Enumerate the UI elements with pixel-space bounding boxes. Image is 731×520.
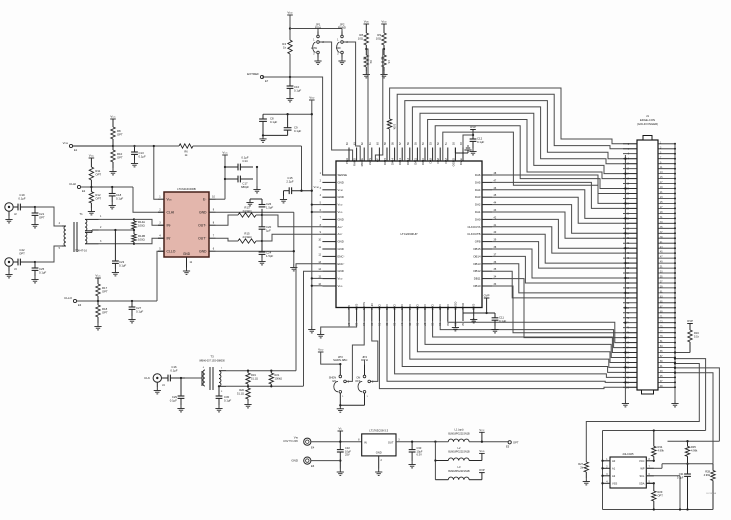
wire DB bus 1: [387, 321, 637, 382]
svg-text:VC: VC: [338, 427, 342, 431]
wire ENC+: [296, 264, 322, 371]
ground: [112, 269, 119, 276]
wire CLLO to U1: [157, 251, 164, 301]
capacitor C13: [131, 145, 146, 160]
ground: [409, 461, 416, 468]
svg-text:SHDN ABC: SHDN ABC: [333, 358, 347, 362]
svg-text:GND: GND: [338, 269, 344, 273]
wire DA2: [492, 205, 637, 234]
wire DA5: [492, 182, 637, 208]
svg-text:A0: A0: [612, 459, 616, 463]
wire DA15 bus: [390, 88, 637, 161]
svg-text:MODE: MODE: [360, 158, 364, 167]
svg-text:VCM: VCM: [63, 141, 69, 145]
node VCM label: [314, 185, 319, 189]
svg-text:10: 10: [318, 239, 321, 242]
svg-text:VCC: VCC: [222, 151, 228, 155]
ground: [337, 469, 344, 476]
connector J2 SMA: [5, 203, 17, 216]
svg-text:10Ω: 10Ω: [358, 37, 363, 41]
wire bottom rail: [603, 508, 714, 510]
wire C8 C9 gnd rail: [262, 134, 288, 136]
svg-text:GND: GND: [376, 451, 382, 455]
wire rail3: [662, 463, 713, 465]
svg-text:BLM18PG221SN1B: BLM18PG221SN1B: [448, 470, 470, 473]
svg-text:7: 7: [213, 235, 215, 238]
svg-text:DA4: DA4: [475, 188, 481, 192]
svg-text:62: 62: [361, 142, 364, 145]
capacitor C18: [109, 186, 124, 202]
svg-text:6.3V: 6.3V: [417, 453, 423, 457]
svg-text:J3: J3: [14, 267, 17, 271]
capacitor C16: [162, 365, 186, 381]
jumper JP1 PGA: [311, 23, 324, 58]
capacitor C15: [284, 176, 313, 196]
wire VCM rail: [113, 145, 179, 147]
svg-text:L1 (opt): L1 (opt): [455, 428, 464, 432]
resistor R21: [269, 370, 282, 388]
svg-text:PGA: PGA: [345, 158, 349, 164]
terminal E3 CLLO: [64, 296, 157, 307]
svg-text:E6: E6: [311, 464, 315, 468]
svg-text:OPT: OPT: [102, 311, 108, 315]
ground: [452, 324, 499, 333]
svg-text:10: 10: [212, 196, 215, 199]
svg-text:100Ω: 100Ω: [138, 224, 145, 228]
svg-text:ENC−: ENC−: [338, 262, 346, 266]
resistor R27 2k: [578, 362, 699, 478]
svg-text:DA9: DA9: [429, 158, 433, 164]
wire top rail: [603, 429, 706, 431]
wire ENC-: [304, 271, 323, 386]
ground: [31, 221, 38, 228]
svg-text:2: 2: [100, 226, 102, 229]
wire: [99, 229, 135, 231]
capacitor C19: [13, 193, 35, 210]
svg-text:1: 1: [159, 196, 161, 199]
capacitor C22: [13, 248, 35, 265]
svg-text:57: 57: [399, 142, 402, 145]
svg-text:CLHI: CLHI: [167, 210, 175, 214]
wire eeprom pins: [646, 464, 680, 510]
wire jumper gnd rail: [339, 404, 364, 406]
wire connector to eeprom 1: [674, 357, 706, 430]
power VCC out: [479, 428, 485, 442]
capacitor C33: [409, 442, 423, 461]
svg-text:OPT: OPT: [19, 252, 25, 256]
ground: [128, 316, 135, 323]
wire DB bus 9: [448, 321, 637, 343]
wire to U1 IN-: [134, 238, 164, 244]
wire DA9 bus: [435, 126, 637, 189]
power VCC: [89, 154, 95, 159]
svg-text:CLHI: CLHI: [69, 182, 76, 186]
svg-text:DB15: DB15: [474, 247, 481, 251]
ground: [177, 405, 184, 412]
svg-text:SCL: SCL: [639, 474, 645, 478]
wire U1 pin9 gnd: [216, 212, 294, 264]
wire OFB: [492, 242, 637, 269]
svg-text:ENC+: ENC+: [338, 254, 346, 258]
capacitor C26: [250, 199, 273, 216]
svg-text:DB14: DB14: [474, 254, 481, 258]
wire DB bus 8: [440, 321, 637, 348]
svg-text:3: 3: [320, 187, 322, 190]
wire: [99, 243, 135, 245]
resistor R35: [685, 441, 698, 465]
svg-text:0.1µF: 0.1µF: [294, 89, 301, 93]
svg-text:DB4: DB4: [408, 305, 412, 311]
svg-text:DB2: DB2: [393, 305, 397, 311]
connector J4 CLK SMA: [144, 374, 165, 387]
capacitor C8: [259, 113, 313, 135]
resistor R15: [216, 231, 263, 243]
svg-text:2: 2: [381, 459, 383, 462]
svg-text:OUT+: OUT+: [198, 223, 207, 227]
svg-text:24.9kΩ: 24.9kΩ: [243, 235, 252, 239]
power VDD: [287, 11, 293, 16]
svg-text:1k: 1k: [185, 153, 188, 157]
resistor R19: [246, 370, 258, 387]
svg-text:OPT: OPT: [39, 216, 45, 220]
svg-text:4: 4: [159, 235, 161, 238]
resistor R14A: [132, 218, 145, 229]
wire VDD GND bottom: [321, 321, 357, 331]
resistor R20: [237, 385, 252, 408]
wire: [289, 15, 342, 77]
resistor R9 10ohm: [376, 24, 386, 50]
svg-text:BLM18PG221SN1B: BLM18PG221SN1B: [448, 451, 470, 454]
svg-text:OE: OE: [369, 60, 372, 64]
svg-text:LVDS: LVDS: [368, 158, 372, 165]
ground: [317, 331, 324, 338]
resistor R16 OVP: [687, 319, 700, 353]
svg-text:1.5pF: 1.5pF: [266, 254, 273, 258]
svg-text:51: 51: [445, 142, 448, 145]
svg-text:11: 11: [319, 246, 322, 249]
svg-text:DA12: DA12: [406, 158, 410, 165]
ground: [338, 58, 345, 65]
resistor R4: [282, 40, 292, 54]
ground: [5, 216, 12, 223]
terminal E4 VIN: [283, 436, 315, 450]
svg-text:LTC6416CDDB: LTC6416CDDB: [177, 187, 196, 191]
wire CLKOUTA: [492, 227, 637, 253]
svg-text:100Ω: 100Ω: [138, 238, 145, 242]
svg-text:DB1: DB1: [385, 305, 389, 311]
svg-text:DA3: DA3: [475, 195, 481, 199]
op-amp U1 LTC6416CDDB: [158, 187, 216, 268]
svg-text:SDA: SDA: [639, 481, 645, 485]
resistor R8: [111, 119, 123, 146]
svg-text:DA5: DA5: [475, 180, 481, 184]
svg-text:T3: T3: [210, 355, 214, 359]
ground: [622, 400, 629, 407]
ground: [246, 199, 253, 206]
svg-text:1µF: 1µF: [266, 229, 271, 233]
wire DB bus 5: [417, 321, 637, 363]
svg-text:R6: R6: [184, 150, 188, 154]
svg-text:DA10: DA10: [421, 158, 425, 165]
svg-text:VSS: VSS: [612, 481, 617, 485]
svg-text:R16: R16: [694, 331, 699, 335]
svg-text:GND: GND: [338, 247, 344, 251]
power OVP out: [479, 468, 485, 473]
connector J1 EDGE-CON: [623, 114, 675, 394]
svg-text:(GOLD FINGER): (GOLD FINGER): [637, 122, 658, 126]
svg-text:0.1µF: 0.1µF: [241, 156, 248, 160]
wire CLKOUTB: [492, 234, 637, 263]
svg-text:OGND: OGND: [451, 158, 455, 166]
svg-text:C14: C14: [242, 159, 248, 163]
svg-text:2: 2: [320, 179, 322, 182]
svg-text:WBA6-007 1SS-088000: WBA6-007 1SS-088000: [199, 360, 225, 363]
regulator U5 LT1763CS8-3.3: [358, 429, 400, 469]
transformer T3: [185, 355, 226, 394]
svg-text:E7: E7: [265, 79, 269, 83]
ground: [109, 168, 116, 175]
capacitor C11: [455, 294, 506, 327]
wire: [216, 155, 226, 199]
wire DA14 bus: [397, 94, 637, 161]
svg-text:1: 1: [221, 368, 223, 370]
wire DA11 bus: [420, 113, 637, 173]
svg-text:GND: GND: [355, 304, 359, 310]
wire AIN-: [262, 234, 322, 241]
svg-text:DA14: DA14: [391, 158, 395, 165]
svg-text:3: 3: [313, 53, 315, 56]
resistor R3: [381, 49, 391, 71]
svg-text:0.1µF: 0.1µF: [224, 399, 231, 403]
svg-text:1k: 1k: [283, 46, 287, 50]
ground: [470, 316, 477, 323]
ground: [314, 58, 321, 65]
wire eeprom left bus: [601, 431, 603, 510]
svg-text:53: 53: [430, 142, 433, 145]
svg-text:CLK: CLK: [144, 376, 150, 380]
inductor L1: [448, 428, 508, 443]
svg-text:10Ω: 10Ω: [376, 37, 381, 41]
wire DA1: [492, 212, 637, 238]
wire VCM taps: [311, 203, 323, 286]
svg-text:IN+: IN+: [167, 223, 172, 227]
svg-text:DB7: DB7: [431, 305, 435, 311]
wire DB12: [492, 271, 637, 298]
svg-text:DB5: DB5: [415, 305, 419, 311]
wire DB bus 0: [379, 321, 637, 389]
ground: [290, 264, 297, 271]
svg-text:24.9kΩ: 24.9kΩ: [243, 209, 252, 213]
capacitor C10: [287, 77, 302, 95]
svg-text:DA8: DA8: [436, 158, 440, 164]
svg-text:CS: CS: [387, 60, 390, 64]
svg-text:0.1µF: 0.1µF: [116, 197, 123, 201]
svg-text:0.1µF: 0.1µF: [39, 271, 46, 275]
svg-text:60: 60: [376, 142, 379, 145]
svg-text:VDD: VDD: [479, 449, 485, 453]
wire: [35, 246, 62, 262]
capacitor C24: [259, 241, 274, 258]
svg-text:SHDN: SHDN: [362, 302, 366, 310]
power VDD: [309, 96, 315, 101]
svg-text:DA15: DA15: [383, 158, 387, 165]
wire VCM to C15: [193, 146, 302, 191]
svg-text:1: 1: [337, 39, 339, 42]
svg-text:3: 3: [221, 391, 223, 393]
wire DB13: [492, 264, 637, 293]
power VDD: [364, 20, 370, 25]
svg-text:OVP: OVP: [484, 294, 490, 298]
svg-text:OVP: OVP: [479, 468, 485, 472]
svg-text:E3: E3: [78, 303, 82, 307]
wire DA13 bus: [405, 101, 637, 161]
svg-text:55: 55: [414, 142, 417, 145]
ground: [671, 400, 678, 407]
svg-text:DA1: DA1: [475, 210, 481, 214]
svg-text:51.1Ω: 51.1Ω: [251, 376, 258, 380]
inductor L3: [435, 465, 482, 480]
ground: [258, 258, 265, 265]
wire DB bus 7: [433, 321, 637, 353]
svg-text:3: 3: [159, 222, 161, 225]
svg-text:GND: GND: [199, 249, 207, 253]
resistor R12: [89, 186, 101, 208]
svg-text:4.99k: 4.99k: [658, 448, 665, 452]
svg-text:56: 56: [407, 142, 410, 145]
svg-text:DB8: DB8: [438, 305, 442, 311]
svg-text:58: 58: [392, 142, 395, 145]
svg-text:100k: 100k: [393, 124, 396, 130]
ground: [31, 276, 38, 283]
svg-text:L3: L3: [458, 465, 461, 469]
svg-text:0.1µF: 0.1µF: [477, 140, 484, 144]
svg-text:VDD: VDD: [287, 11, 293, 15]
wire DA10 bus: [428, 120, 637, 179]
svg-text:OPT: OPT: [658, 493, 664, 497]
resistor R7 100k: [386, 119, 396, 130]
wire DB10: [492, 286, 637, 333]
svg-text:GND: GND: [338, 195, 344, 199]
wire DA4: [492, 190, 637, 219]
capacitor C31: [677, 464, 691, 510]
jumper JP2 RAND: [336, 23, 349, 58]
wire: [99, 218, 135, 220]
svg-text:100kΩ: 100kΩ: [275, 376, 283, 380]
capacitor C29: [170, 377, 185, 405]
svg-text:DC1532A: DC1532A: [707, 492, 717, 495]
svg-text:61: 61: [369, 142, 372, 145]
ground: [286, 95, 293, 102]
svg-text:DA13: DA13: [398, 158, 402, 165]
wire U1 pin6 gnd: [216, 250, 295, 252]
ground: [375, 469, 382, 476]
svg-text:CLKOUTA: CLKOUTA: [467, 225, 480, 229]
svg-text:2: 2: [159, 209, 161, 212]
svg-text:0.1µF: 0.1µF: [18, 197, 25, 201]
ground: [94, 323, 101, 330]
svg-text:A1: A1: [612, 466, 616, 470]
svg-text:DB10: DB10: [474, 284, 481, 288]
svg-text:4: 4: [320, 194, 322, 197]
svg-text:VCC: VCC: [89, 154, 95, 158]
wire AIN+: [262, 215, 322, 227]
wire R16 to row: [674, 351, 690, 353]
wire EXTREF to SENSE: [262, 77, 336, 175]
svg-text:VDD: VDD: [364, 20, 370, 24]
svg-text:OPT: OPT: [117, 133, 123, 137]
ground: [337, 405, 344, 412]
svg-text:30: 30: [446, 323, 449, 326]
ground: [253, 186, 260, 193]
ground: [469, 148, 476, 155]
svg-text:OPT: OPT: [95, 173, 101, 177]
wire DB15: [492, 249, 637, 278]
svg-text:LTC2260IUP: LTC2260IUP: [400, 232, 417, 236]
svg-text:VDD: VDD: [381, 20, 387, 24]
wire rail2: [668, 440, 720, 442]
capacitor C17: [224, 176, 253, 189]
svg-text:52: 52: [437, 142, 440, 145]
svg-text:CLLO: CLLO: [167, 249, 176, 253]
svg-text:L2: L2: [458, 446, 461, 450]
svg-text:1: 1: [320, 172, 322, 175]
svg-text:DA0: DA0: [475, 217, 481, 221]
svg-text:A2: A2: [612, 474, 616, 478]
capacitor C20: [259, 215, 272, 242]
svg-text:3: 3: [100, 240, 102, 243]
svg-text:DB3: DB3: [400, 305, 404, 311]
wire OUT rail: [396, 441, 448, 443]
svg-text:GND: GND: [199, 210, 207, 214]
svg-text:DA6: DA6: [475, 173, 481, 177]
svg-text:3: 3: [398, 439, 400, 442]
wire VIN: [311, 431, 362, 450]
svg-text:2k: 2k: [580, 465, 583, 469]
svg-text:VDD: VDD: [318, 348, 324, 352]
wire: [321, 352, 342, 365]
ground: [109, 202, 116, 209]
svg-text:32: 32: [461, 323, 464, 326]
wire connector to eeprom 2: [674, 367, 720, 441]
ground: [380, 71, 387, 78]
EEPROM U3 24LC025: [603, 452, 654, 488]
svg-text:25V: 25V: [345, 453, 350, 457]
svg-text:64: 64: [346, 142, 349, 145]
ground: [5, 271, 12, 278]
ground: [583, 478, 590, 485]
svg-text:DB12: DB12: [474, 269, 481, 273]
power VDD out: [479, 449, 485, 454]
svg-text:IN−: IN−: [167, 236, 172, 240]
svg-text:WP: WP: [640, 466, 644, 470]
svg-text:1: 1: [367, 396, 369, 398]
svg-text:680pF: 680pF: [241, 185, 249, 189]
capacitor C12 OVP: [470, 125, 485, 148]
svg-text:5: 5: [59, 247, 61, 250]
wire U1 pin1 VDD: [153, 145, 158, 199]
wire DB bus 4: [410, 321, 637, 367]
power VCC: [95, 274, 101, 279]
power VCC: [110, 115, 116, 120]
wire SHDN drop: [346, 321, 364, 381]
jumper JP3 SHDN: [329, 355, 350, 405]
svg-text:DITH: DITH: [370, 303, 374, 310]
svg-text:IN: IN: [364, 441, 367, 445]
svg-text:CLLO: CLLO: [64, 296, 73, 300]
svg-text:OFB: OFB: [475, 240, 481, 244]
svg-text:GND: GND: [472, 304, 476, 310]
wire MODE drop: [366, 49, 368, 161]
